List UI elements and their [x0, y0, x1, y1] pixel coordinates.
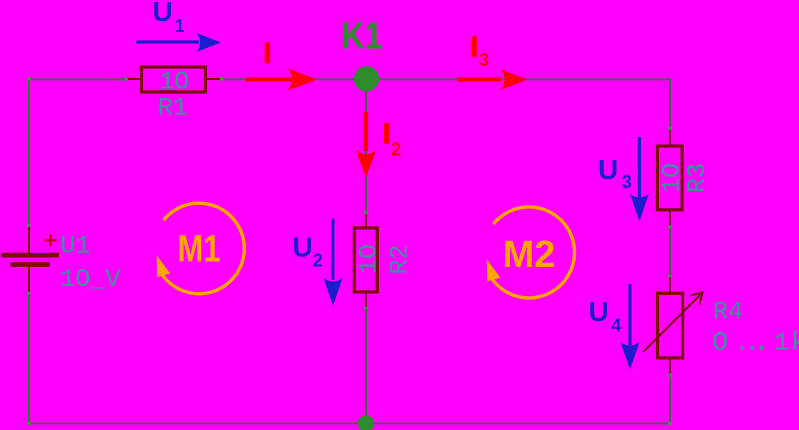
resistor R4 (variable): [658, 293, 683, 358]
battery source U1 plates: [1, 253, 59, 267]
wire: R1 to node K1: [222, 78, 356, 80]
svg-text:1O_V: 1O_V: [60, 265, 120, 294]
label U4: [589, 296, 622, 335]
svg-text:M1: M1: [178, 229, 221, 271]
bottom node dot: [358, 415, 374, 430]
pin: R2 top: [365, 213, 367, 227]
voltage arrow U2: [324, 219, 343, 306]
svg-text:I: I: [470, 31, 478, 62]
pin: R4 top: [669, 276, 671, 293]
label U3: [598, 154, 632, 192]
svg-text:K1: K1: [342, 15, 383, 57]
wire: left vertical upper: [28, 78, 30, 225]
current arrow I2: [356, 112, 377, 178]
svg-text:I: I: [383, 118, 391, 149]
pin: R2 bottom: [365, 294, 367, 309]
svg-text:1: 1: [175, 16, 185, 36]
svg-text:2: 2: [391, 140, 401, 160]
svg-text:U: U: [153, 0, 173, 27]
svg-text:3: 3: [479, 50, 489, 70]
current arrow I3: [457, 69, 527, 90]
wire: middle vertical R2 to bottom node: [365, 308, 367, 416]
pin: battery U1 bottom lead: [28, 267, 30, 293]
label I2: [383, 118, 402, 160]
label U1 arrow: [153, 0, 185, 36]
svg-text:U: U: [598, 154, 618, 185]
svg-text:U1: U1: [60, 231, 90, 260]
label U2: [293, 232, 323, 271]
svg-text:3: 3: [622, 172, 632, 192]
wire: node K1 to top-right corner: [378, 78, 670, 80]
svg-text:R3: R3: [683, 163, 712, 193]
svg-text:1O: 1O: [355, 244, 384, 274]
junction ticks: [27, 78, 672, 425]
pin: R1 right: [207, 78, 222, 80]
svg-text:U: U: [293, 232, 313, 263]
svg-text:2: 2: [313, 251, 323, 271]
svg-text:O...1k: O...1k: [712, 327, 799, 357]
wire: bottom horizontal: [29, 422, 670, 424]
resistor R1: [142, 67, 206, 92]
voltage arrow U4: [620, 284, 639, 370]
label I3: [470, 31, 489, 70]
pin: R3 top: [669, 129, 671, 145]
node K1 dot: [354, 66, 379, 91]
current arrow I: [246, 69, 317, 91]
R4 variable diagonal arrow: [643, 292, 703, 352]
wire: R3 to R4: [669, 227, 671, 276]
svg-text:M2: M2: [503, 234, 556, 276]
resistor R3: [657, 146, 682, 210]
voltage arrow U1: [136, 33, 221, 52]
pin: R3 bottom: [669, 211, 671, 227]
voltage arrow U3: [630, 137, 649, 222]
svg-text:R1: R1: [158, 94, 188, 123]
mesh arrow M2: [487, 207, 575, 298]
svg-text:4: 4: [611, 315, 621, 335]
pin: R4 bottom: [669, 359, 671, 376]
svg-text:1O: 1O: [159, 67, 189, 96]
svg-text:U: U: [589, 296, 609, 327]
svg-text:I: I: [264, 37, 272, 68]
wire: right vertical upper: [669, 78, 671, 128]
wire: top-left horizontal: [29, 78, 126, 80]
wire: right vertical lower: [669, 375, 671, 423]
svg-text:R2: R2: [385, 244, 414, 274]
resistor R2: [354, 228, 377, 292]
battery U1 plus sign: [45, 234, 57, 246]
pin: R1 left: [126, 78, 141, 80]
svg-text:R4: R4: [713, 297, 743, 326]
mesh arrow M1: [157, 203, 245, 294]
wire: middle vertical K1 to R2: [365, 91, 367, 213]
pin: battery U1 top lead: [28, 226, 30, 254]
wire: left vertical lower: [28, 293, 30, 424]
